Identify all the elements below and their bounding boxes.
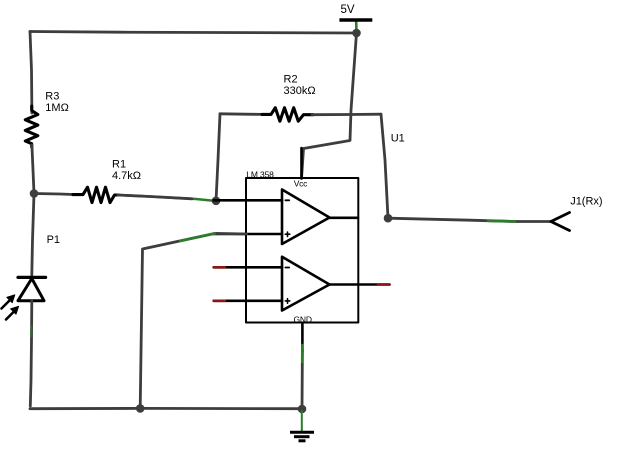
wire P1 bottom to corner <box>30 301 32 406</box>
svg-text:4.7kΩ: 4.7kΩ <box>112 170 141 182</box>
wire output node C to connector J1 <box>388 218 551 221</box>
pin 1+ (op-amp1 non-inverting, left) <box>214 233 247 236</box>
op-amp U1b internal input lines <box>247 266 283 269</box>
connector J1(Rx) symbol <box>551 213 570 231</box>
op-amp U1a triangle <box>282 190 330 245</box>
pin 2+ (op-amp2 non-inverting, left, unconnected red tip) <box>214 299 247 302</box>
node D junction dot (5V) <box>352 29 361 38</box>
wire P1 top (node A down to diode) <box>32 194 34 276</box>
op-amp U1b minus sign <box>285 267 289 269</box>
wire left vertical upper (corner to R3 top) <box>30 32 32 114</box>
node A junction dot <box>30 189 39 198</box>
photodiode P1 <box>18 277 46 300</box>
5V symbol stub (green) <box>355 21 358 33</box>
pin Vcc (top) <box>300 148 303 179</box>
wire R2 left corner to resistor <box>220 112 264 115</box>
wire bottom horizontal <box>30 407 302 410</box>
op-amp U1b triangle <box>282 257 330 311</box>
svg-text:R1: R1 <box>112 158 126 170</box>
svg-text:R3: R3 <box>45 91 59 103</box>
wire 5V junction down and over to Vcc pin <box>302 33 357 177</box>
node B junction dot <box>212 197 221 206</box>
svg-text:330kΩ: 330kΩ <box>284 85 316 97</box>
op-amp U1a output line <box>330 217 359 220</box>
IC U1 box <box>246 178 358 323</box>
wire R2 right to bend <box>312 113 381 116</box>
pin GND (bottom) <box>301 323 304 352</box>
wire green part of + input slope <box>180 233 215 241</box>
svg-text:P1: P1 <box>47 234 60 246</box>
wire op-amp1 + input to lower-left vertical <box>140 233 246 408</box>
svg-text:5V: 5V <box>341 4 355 16</box>
op-amp U1a minus sign <box>285 199 289 201</box>
5V symbol bar <box>339 18 372 21</box>
svg-text:J1(Rx): J1(Rx) <box>570 195 602 207</box>
wire U1 feedback descent to node C <box>381 114 388 218</box>
wire GND pin to bottom node F <box>301 350 304 409</box>
wire node B up to R2 left corner <box>216 114 220 201</box>
wire green segment on output <box>488 220 515 223</box>
svg-text:LM 358: LM 358 <box>246 170 274 180</box>
wire left vertical lower (R3 bottom to node A) <box>32 145 34 194</box>
ground symbol <box>301 411 303 431</box>
op-amp U1b plus sign <box>285 299 290 304</box>
node C junction dot (output) <box>384 214 393 223</box>
photodiode arrows <box>2 295 19 320</box>
node F junction dot (ground) <box>298 405 307 414</box>
node E junction dot (bottom) <box>136 404 145 413</box>
op-amp U1b output line <box>330 283 359 286</box>
wire node A to R1 left <box>34 194 76 195</box>
pin 1- (op-amp1 inverting, left) <box>214 199 247 202</box>
resistor R2 <box>262 108 313 122</box>
resistor R1 <box>73 187 119 202</box>
resistor R3 <box>25 106 38 147</box>
svg-text:Vcc: Vcc <box>294 178 308 188</box>
wire top from left corner to 5V junction <box>30 32 357 34</box>
op-amp U1a internal input lines <box>247 199 283 202</box>
wire R1 right to node B <box>118 195 216 201</box>
svg-text:U1: U1 <box>391 132 405 144</box>
svg-text:GND: GND <box>294 314 312 324</box>
pin out2 (right, unconnected red tip) <box>358 283 390 286</box>
svg-text:1MΩ: 1MΩ <box>45 102 69 114</box>
op-amp U1a plus sign <box>285 232 290 237</box>
pin 2- (op-amp2 inverting, left, unconnected red tip) <box>214 266 247 269</box>
svg-text:R2: R2 <box>284 73 298 85</box>
